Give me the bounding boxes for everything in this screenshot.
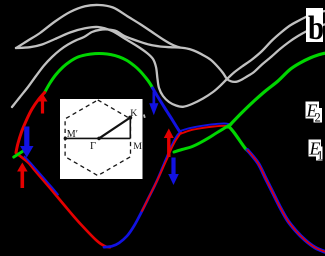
green segment descending from crossing <box>229 127 249 152</box>
spin arrow red up at left lower <box>17 163 28 189</box>
pair descending to bottom right blue <box>248 150 325 252</box>
inset line Gamma to K <box>99 118 130 139</box>
band E1 valley red companion right <box>142 133 181 211</box>
svg-text:b: b <box>308 9 324 47</box>
inset dot Gamma <box>97 137 101 141</box>
inset dot M-prime <box>64 137 67 140</box>
svg-text:K: K <box>130 108 137 119</box>
band E1 valley blue right branch <box>104 133 181 248</box>
gray tick right of inset <box>143 115 146 118</box>
label E2 <box>306 102 320 119</box>
svg-text:2: 2 <box>315 111 321 125</box>
panel label b box <box>306 8 323 42</box>
spin arrow blue down at left confluence <box>20 127 33 158</box>
svg-text:M′: M′ <box>67 129 78 140</box>
inset Brillouin zone box <box>60 99 143 179</box>
gray band S2 lower hump to U-dip to upper right <box>16 11 325 107</box>
band E1 valley blue companion left <box>25 157 59 195</box>
inset dot K <box>128 116 132 120</box>
svg-text:Γ: Γ <box>90 141 96 152</box>
svg-text:1: 1 <box>317 149 323 163</box>
svg-text:M: M <box>133 141 142 152</box>
spin arrow red up at right confluence <box>164 129 174 158</box>
spin arrow blue down at right lower <box>168 158 179 186</box>
green band rising to right edge <box>228 53 325 127</box>
degenerate pair blue toward crossing <box>180 123 230 131</box>
green stub at left confluence <box>14 151 23 157</box>
spin arrow red up at dome left <box>38 94 48 114</box>
band E2 red left tail <box>16 93 45 153</box>
pair descending to bottom right red core <box>248 150 325 252</box>
band E1 valley red left branch <box>16 153 110 247</box>
gray band S1 upper hump <box>16 5 180 48</box>
inset line K to M <box>129 118 131 139</box>
green middle segment <box>174 124 231 152</box>
inset dashed hexagon <box>65 100 130 176</box>
band E2 green dome <box>45 53 153 92</box>
band E2 blue right tail <box>153 88 181 133</box>
gray band S3 diagonal to junction to lower right <box>12 24 325 107</box>
degenerate pair red toward crossing <box>181 126 230 134</box>
spin arrow blue down at dome right <box>149 92 158 116</box>
label E1 <box>309 140 322 157</box>
inset line M-prime to M <box>65 137 130 139</box>
